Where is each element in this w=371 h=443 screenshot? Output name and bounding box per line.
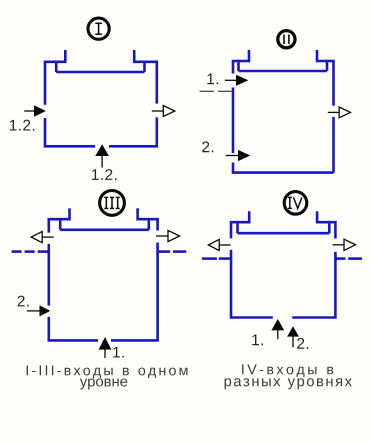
label 2. IV [297,338,308,349]
caption left line 2 [80,378,127,389]
inlet arrow 1 II [225,75,249,86]
level dashes right III [159,250,187,253]
wire right wall top [138,219,158,230]
wire left wall middle [47,244,50,306]
chamber III outline [49,208,158,340]
wire left step [55,61,58,73]
wire right step [143,61,146,73]
label 2. III [18,296,29,307]
wire right wall bottom [332,117,335,173]
inlet arrow left I [24,105,46,117]
wire right wall top [317,61,334,106]
outlet arrow right I [152,106,175,117]
wire right step [148,218,151,230]
level dashes right IV [336,257,362,260]
outlet arrow top-left IV [208,239,230,250]
node I circle [88,18,109,39]
outlet arrow top-right III [156,230,180,241]
chamber IV outline [231,211,335,317]
wire left stub [64,50,67,63]
caption right line 2 [225,378,352,389]
wire inner top [238,232,330,235]
wire inner top [60,229,149,232]
inlet arrow bottom III [99,337,112,358]
wire right stub [316,50,319,62]
wire left wall bottom + bottom left [231,250,273,318]
outlet arrow top-left III [31,232,54,243]
node IV circle [284,192,307,215]
label 2. [202,141,213,152]
label 1. IV [252,335,263,346]
caption left line 1 [27,365,188,378]
wire left step [236,221,239,233]
wire right step [326,60,329,71]
inlet arrow 2 III [27,305,50,316]
wire right stub [133,50,136,63]
level dashes left IV [202,257,231,260]
wire left wall lower [45,118,95,146]
wire left wall bottom + bottom left [49,317,98,341]
wire left wall middle [232,88,235,154]
node II circle [278,31,295,48]
caption right line 1 [242,364,333,377]
wire right stub [136,208,139,220]
outlet arrow right II [328,107,351,118]
wire left wall upper [45,62,65,105]
wire right wall + bottom right [111,243,158,341]
wire left wall top [233,61,249,74]
level dashes left III [12,250,49,253]
label 1. III [113,347,124,358]
inlet arrow 2 II [226,150,251,161]
outlet arrow top-right IV [333,239,356,250]
wire right stub [316,211,319,223]
wire right wall top [317,222,335,238]
wire right wall lower [109,117,157,146]
chamber II outline [233,50,334,173]
label 1.2. left [10,120,34,131]
wire inner top [239,70,328,73]
wire left stub [248,50,251,62]
wire left wall bottom + bottom [233,163,334,173]
node III circle [100,191,125,216]
wire left stub [68,208,71,220]
wire left step [237,60,240,71]
wire left wall top [49,219,70,232]
wire right wall upper [134,62,157,104]
wire inner top [56,71,144,74]
label 1. [207,74,218,85]
inlet arrow 2 bottom IV [287,326,299,347]
wire left stub [248,211,251,223]
inlet arrow bottom I [95,144,109,167]
wire right step [328,221,331,233]
label 1.2. bottom [92,169,116,180]
wire left step [59,218,62,230]
chamber I outline [45,50,157,146]
inlet arrow 1 bottom IV [271,319,284,339]
level dash line II [200,90,232,92]
wire left wall top [231,222,249,238]
wire right wall bottom + bottom right [292,252,335,318]
